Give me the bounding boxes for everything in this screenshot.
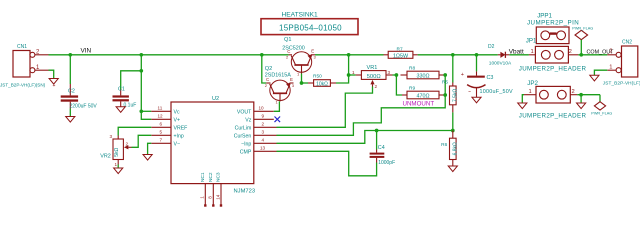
ground at C2 (66, 117, 75, 123)
pin 3 CurSen (234, 130, 277, 140)
svg-text:VREF: VREF (174, 125, 188, 131)
resistor R6 (450, 131, 459, 167)
svg-text:8: 8 (208, 196, 213, 199)
wire CurLim pin2 to VR1 wiper (277, 87, 373, 128)
svg-text:CMP: CMP (240, 149, 252, 155)
svg-text:Vbatt: Vbatt (509, 49, 524, 56)
svg-text:4: 4 (262, 138, 265, 143)
ground at R6 (448, 166, 457, 172)
svg-text:UNMOUNT: UNMOUNT (403, 100, 435, 107)
wire R5 to divider node (452, 112, 454, 130)
svg-text:5kΩ: 5kΩ (114, 147, 120, 156)
wire rail R7 to D2 (418, 54, 498, 56)
svg-text:JP2: JP2 (527, 80, 538, 87)
svg-text:+Inp: +Inp (174, 133, 184, 139)
resistor R7 (384, 51, 418, 59)
svg-text:470Ω: 470Ω (416, 94, 429, 100)
svg-text:2SC5200: 2SC5200 (282, 46, 304, 52)
wire CN2 pin1 to ground (594, 70, 607, 75)
wire CMP pin13 to C4 bottom (277, 151, 377, 176)
ground at JP2 pin2 (577, 103, 586, 109)
node R8/R9 left junction (395, 73, 399, 77)
svg-text:VR1: VR1 (367, 65, 378, 71)
svg-text:2: 2 (609, 49, 612, 55)
svg-text:JP1: JP1 (526, 38, 537, 45)
pin 12 V+ (151, 114, 180, 124)
svg-text:CN1: CN1 (17, 44, 27, 50)
svg-text:NC2: NC2 (208, 172, 214, 182)
svg-text:Vz: Vz (245, 117, 251, 123)
svg-text:13: 13 (260, 146, 266, 151)
svg-text:JUMPER2P_HEADER: JUMPER2P_HEADER (519, 65, 587, 72)
wire JP2 pin2 node down to ground (580, 95, 582, 103)
wire CN1 pin1 to ground (49, 70, 54, 78)
ground at CN1 pin1 (49, 79, 58, 85)
svg-text:Q2: Q2 (265, 66, 272, 72)
svg-text:E: E (311, 49, 314, 54)
svg-text:9: 9 (262, 114, 265, 119)
ground at JP2 pin1 (518, 103, 527, 109)
ground at C3 (472, 97, 481, 103)
pin 14 NC3 bottom (215, 172, 222, 207)
svg-text:NJM723: NJM723 (234, 188, 256, 194)
ground at V- (143, 155, 152, 161)
pin 10 VOUT (237, 106, 274, 116)
svg-text:3: 3 (109, 134, 112, 139)
pin 1 NC1 bottom (200, 172, 207, 207)
svg-text:14: 14 (215, 194, 220, 200)
svg-text:U2: U2 (212, 96, 219, 102)
resistor R50 (308, 80, 336, 88)
svg-text:CurSen: CurSen (234, 133, 252, 139)
transistor Q2 2SD1615A (265, 77, 295, 105)
wire rail to R5 (452, 55, 454, 83)
connector CN2 (607, 46, 638, 77)
svg-text:2: 2 (569, 49, 572, 55)
resistor R5 (450, 83, 459, 113)
wire C1 branch from VIN vertical (121, 71, 142, 90)
ground at C1 (116, 107, 125, 113)
node junction at Vc row (139, 109, 143, 113)
svg-text:12: 12 (158, 114, 164, 119)
svg-text:JUMPER2P_HEADER: JUMPER2P_HEADER (519, 112, 587, 119)
wire C2 to ground (69, 109, 71, 117)
node COM_OUT junction at PWR_FLAG (579, 53, 583, 57)
svg-text:500Ω: 500Ω (367, 74, 382, 80)
svg-text:5: 5 (160, 130, 163, 135)
node VIN junction at Q2 collector branch (260, 53, 264, 57)
svg-text:1: 1 (352, 70, 355, 75)
node R5/R6 divider junction (451, 129, 455, 133)
wire -Inp pin4 to divider node (277, 131, 453, 144)
svg-text:JST_B2P-VH(LF)(SN): JST_B2P-VH(LF)(SN) (0, 83, 46, 88)
svg-text:V−: V− (174, 141, 181, 147)
svg-text:1000V10A: 1000V10A (489, 60, 512, 66)
wire VOUT pin10 to Q2 base (274, 102, 280, 112)
svg-text:R50: R50 (313, 74, 322, 80)
op-amp U2 NJM723 body (171, 102, 254, 184)
wire VIN to U2 Vc and V+ (141, 55, 151, 120)
svg-text:C4: C4 (378, 145, 385, 151)
capacitor C2 (53, 83, 79, 109)
node output rail junction to VR1/R50 (347, 53, 351, 57)
jumper JPP1 (536, 27, 569, 44)
svg-text:V+: V+ (174, 117, 181, 123)
svg-text:PWR_FLAG: PWR_FLAG (572, 26, 593, 30)
svg-text:2: 2 (375, 84, 378, 89)
svg-text:VR2: VR2 (100, 154, 111, 160)
potentiometer VR1 (356, 71, 393, 87)
node C4 top junction (375, 129, 379, 133)
svg-text:CurLim: CurLim (235, 125, 252, 131)
svg-text:2: 2 (262, 122, 265, 127)
node VIN junction at C1/U2 branch (139, 53, 143, 57)
ground at VR2 (114, 168, 123, 174)
node junction C1 branch (139, 69, 143, 73)
svg-text:−Inp: −Inp (241, 141, 251, 147)
pin 11 Vc (151, 106, 180, 116)
svg-text:1: 1 (529, 89, 532, 95)
svg-text:2: 2 (126, 142, 129, 147)
wire V- to ground (148, 143, 152, 154)
svg-text:JST_B2P-VH(LF): JST_B2P-VH(LF) (603, 80, 640, 85)
pin 2 CurLim (235, 122, 277, 132)
power flag PWR_FLAG at COM_OUT (572, 26, 593, 54)
wire Q2 collector branch (262, 55, 267, 83)
wire JP2 pin1 to ground (522, 95, 524, 103)
svg-text:1: 1 (609, 65, 612, 71)
svg-text:R8: R8 (409, 65, 415, 71)
potentiometer VR2 (113, 136, 132, 165)
capacitor C4 (370, 150, 385, 163)
wire VR1 pin3 to R8/R9 left node (393, 74, 397, 76)
node R9 right junction (443, 93, 447, 97)
wire C4 top to divider rail (376, 131, 378, 150)
wire R8 right to R9 right (444, 75, 446, 95)
svg-text:D2: D2 (488, 44, 495, 50)
wire to Vc pin (141, 110, 151, 112)
svg-text:C1: C1 (118, 87, 125, 93)
transistor Q1 2SC5200 (286, 49, 317, 77)
wire Q1 base to Q2 emitter node (301, 74, 303, 84)
svg-text:Q1: Q1 (284, 37, 291, 43)
svg-text:15PB054–01050: 15PB054–01050 (279, 24, 342, 33)
svg-text:+: + (461, 72, 464, 78)
pin 7 V- (151, 138, 180, 148)
node VR1 pin1 junction (347, 73, 351, 77)
pin 5 +Inp (151, 130, 184, 140)
svg-text:7: 7 (160, 138, 163, 143)
wire rail to C3 (476, 55, 478, 72)
svg-text:1000uF_50V: 1000uF_50V (480, 89, 514, 95)
node rail junction at R5 (451, 53, 455, 57)
heatsink HEATSINK1 box (261, 19, 358, 35)
capacitor C3 (461, 71, 486, 97)
node rail junction at C3 (475, 53, 479, 57)
svg-text:Vc: Vc (174, 109, 180, 115)
wire node to R50 (302, 82, 309, 84)
svg-text:3: 3 (262, 130, 265, 135)
svg-text:NC3: NC3 (216, 172, 222, 182)
svg-text:R9: R9 (409, 85, 415, 91)
svg-text:~: ~ (468, 90, 471, 96)
svg-text:1: 1 (531, 49, 534, 55)
resistor R8 (401, 71, 446, 80)
wire JP2 pin2 node right to PWR_FLAG (577, 94, 600, 96)
svg-text:CN2: CN2 (622, 39, 632, 45)
svg-text:2: 2 (572, 89, 575, 95)
wire Vbatt D2 to JP1 pin1 (509, 54, 529, 56)
svg-text:C3: C3 (487, 75, 494, 81)
svg-text:2200uF 50V: 2200uF 50V (70, 104, 98, 110)
svg-text:NC1: NC1 (200, 172, 206, 182)
diode D2 (498, 52, 510, 58)
ground at CN2 pin1 (590, 75, 599, 81)
pin 8 NC2 bottom (208, 172, 215, 207)
svg-text:C2: C2 (68, 89, 75, 95)
pin 4 -Inp (241, 138, 276, 148)
no-connect X at pin 9 (275, 117, 281, 123)
node JP2 pin2 junction (579, 93, 583, 97)
pin 13 CMP (240, 146, 277, 156)
svg-text:6: 6 (160, 122, 163, 127)
svg-text:HEATSINK1: HEATSINK1 (282, 12, 318, 19)
jumper JP1 (529, 46, 578, 63)
wire VR2 bottom to ground (117, 165, 119, 169)
wire to VR1 pin 1 (349, 74, 356, 76)
svg-text:R6: R6 (441, 142, 447, 148)
power flag PWR_FLAG at JP2 (591, 95, 612, 116)
node VIN junction at C2 (68, 53, 72, 57)
wire VREF to VR2 top (118, 127, 151, 135)
svg-text:R7: R7 (397, 47, 403, 53)
wire VIN rail from CN1 to Q1 collector (49, 54, 289, 56)
svg-text:2SD1615A: 2SD1615A (265, 72, 291, 78)
svg-text:330Ω: 330Ω (416, 74, 429, 80)
svg-text:10: 10 (259, 106, 265, 111)
wire R50 to output rail (336, 55, 349, 83)
wire CurSen pin3 to R8/R9 right node (277, 95, 446, 135)
pin 6 VREF (151, 122, 187, 132)
svg-text:7.5kΩ: 7.5kΩ (452, 89, 458, 102)
svg-text:1000pF: 1000pF (378, 160, 395, 166)
svg-text:1: 1 (114, 162, 117, 167)
svg-text:PWR_FLAG: PWR_FLAG (591, 112, 612, 116)
capacitor C1 (113, 90, 129, 107)
svg-text:1Ω5W: 1Ω5W (393, 53, 409, 59)
svg-text:10kΩ: 10kΩ (316, 82, 328, 88)
svg-text:JPP1: JPP1 (537, 12, 552, 19)
svg-text:0.1uF: 0.1uF (124, 103, 137, 109)
svg-text:VOUT: VOUT (237, 109, 252, 115)
resistor R9 (402, 91, 445, 100)
svg-text:VIN: VIN (81, 48, 92, 55)
svg-text:+: + (53, 83, 56, 89)
wire VR2 wiper to +Inp (132, 135, 152, 147)
svg-text:1: 1 (200, 196, 205, 199)
node Q1 base / Q2 emitter / R50 junction (300, 81, 304, 85)
jumper JP2 (524, 86, 577, 103)
svg-text:3: 3 (388, 70, 391, 75)
wire left node down to R9 (396, 75, 402, 95)
pin 9 Vz (245, 114, 274, 124)
svg-text:R5: R5 (442, 80, 448, 86)
wire C2 branch (69, 55, 71, 84)
wire output rail Q1 emitter to R7 (315, 54, 384, 56)
svg-text:11: 11 (158, 106, 163, 111)
wire COM_OUT JP1 pin2 to CN2 pin2 (578, 54, 607, 56)
svg-text:6.8kΩ: 6.8kΩ (452, 142, 458, 155)
node R8 right junction (443, 73, 447, 77)
connector CN1 (13, 51, 49, 78)
